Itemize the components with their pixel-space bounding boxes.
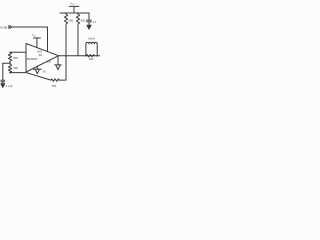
wire RB1 down to output (65, 26, 67, 56)
svg-text:50Ω: 50Ω (13, 57, 18, 60)
node rail right junction dot (96, 55, 98, 57)
capacitor C1 plates (1, 80, 5, 84)
node A junction dot (9, 63, 11, 65)
inductor L1 branch down (96, 44, 98, 56)
op-amp U1 pin label 50ohm (37, 51, 42, 54)
node B junction dot (9, 72, 11, 74)
wire output rail (59, 55, 100, 57)
node output junction dot (65, 55, 67, 57)
svg-text:LMH6082: LMH6082 (25, 57, 38, 61)
svg-text:50Ω: 50Ω (14, 67, 19, 70)
inductor L1 branch up (85, 44, 87, 56)
resistor RB1 vertical (64, 13, 67, 26)
capacitor C1 value label (6, 85, 14, 88)
resistor R1 50 vertical (8, 52, 11, 63)
svg-text:CC: CC (72, 4, 75, 6)
capacitor C2 value label (93, 21, 97, 24)
node ENB port chevron connector (8, 26, 11, 29)
svg-text:ENB: ENB (0, 26, 7, 30)
svg-text:50Ω: 50Ω (89, 58, 94, 61)
wire Vcc rail (60, 12, 89, 14)
wire RB2 down to output (77, 26, 79, 56)
node ENB input port label (0, 26, 7, 30)
resistor RB1 label (69, 19, 74, 22)
power label -5V (42, 71, 46, 74)
capacitor C1 branch wire (2, 63, 4, 80)
resistor RF 750 horizontal (51, 79, 59, 81)
power V+ label Vcc (32, 33, 37, 38)
resistor RB2 label (81, 19, 86, 22)
svg-text:0.1 µF: 0.1 µF (6, 85, 14, 88)
wire enable input to amp top pin (12, 27, 48, 52)
svg-text:50Ω: 50Ω (69, 19, 74, 22)
power V+ bar supply (33, 38, 40, 48)
resistor R2 50 vertical (8, 63, 11, 72)
wire feedback diagonal (26, 73, 51, 81)
inductor L1 coil (86, 42, 97, 43)
resistor R1 value label (13, 57, 18, 60)
inductor L1 value label (88, 38, 95, 41)
svg-text:0.1: 0.1 (93, 21, 97, 24)
op-amp U1 triangle (26, 44, 59, 73)
svg-text:-5V: -5V (42, 71, 46, 74)
resistor RO horizontal on rail (86, 55, 94, 57)
svg-text:800: 800 (47, 61, 52, 64)
node RL junction dot (85, 55, 87, 57)
svg-text:750: 750 (52, 84, 57, 88)
svg-text:50Ω: 50Ω (81, 19, 86, 22)
op-amp U1 part number label (25, 57, 38, 61)
power Vcc bar (69, 6, 79, 13)
op-amp U1 pin label 800 (47, 61, 52, 64)
resistor RB2 vertical (76, 13, 79, 26)
power Vcc label top (70, 2, 75, 7)
resistor R2 value label (14, 67, 19, 70)
wire noninverting input (10, 51, 26, 53)
capacitor C2 wire from rail (88, 13, 90, 20)
ground under C2 (87, 25, 91, 29)
wire feedback rail right and up to output (59, 56, 66, 80)
node rail junction dots (65, 12, 67, 14)
svg-text:5.6nH: 5.6nH (88, 38, 95, 41)
wire node B to inverting input corner (10, 72, 26, 74)
ground under C1 (1, 84, 5, 88)
resistor RO value label (89, 58, 94, 61)
svg-text:4Ω: 4Ω (39, 54, 42, 57)
power V- symbol near apex (55, 56, 62, 69)
power symbol below amp (33, 66, 41, 73)
wire node A to cap branch (3, 62, 10, 64)
capacitor C2 plates (87, 20, 92, 25)
resistor RF value label (52, 84, 57, 88)
